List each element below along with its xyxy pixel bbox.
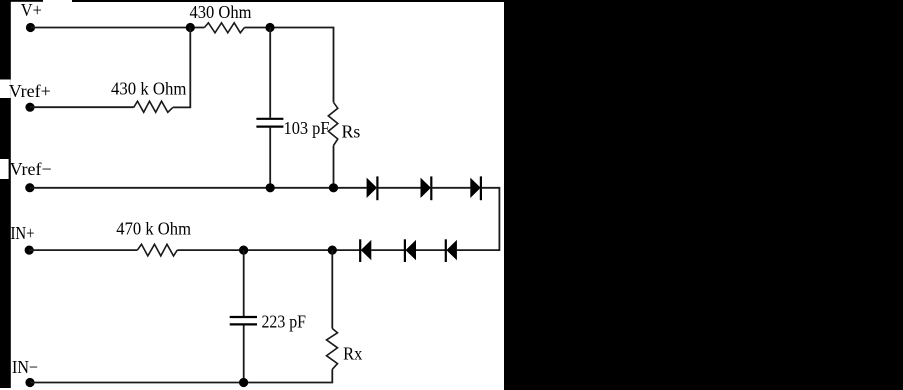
diode D3 triangle xyxy=(470,178,480,198)
resistor Rx zigzag xyxy=(327,329,338,370)
svg-text:Vref−: Vref− xyxy=(10,159,52,179)
terminal dot IN- xyxy=(25,378,34,387)
resistor 470 k Ohm xyxy=(137,244,177,256)
black left margin bar xyxy=(0,0,11,388)
svg-text:430 k Ohm: 430 k Ohm xyxy=(111,78,186,98)
svg-text:430 Ohm: 430 Ohm xyxy=(190,2,252,22)
diode D4 triangle xyxy=(361,240,372,260)
wire vertical cap 223pF bottom lead xyxy=(243,325,245,382)
diode D5 cathode bar xyxy=(404,239,406,262)
diode D6 cathode bar xyxy=(445,239,447,262)
wire between D5 and D6 xyxy=(416,249,446,251)
diode D1 cathode bar xyxy=(376,176,378,200)
wire Vref- rail xyxy=(30,187,367,189)
diode D3 cathode bar xyxy=(480,176,482,200)
svg-text:Rs: Rs xyxy=(342,121,361,141)
wire Rx bottom lead xyxy=(331,369,334,382)
svg-text:Rx: Rx xyxy=(343,344,362,364)
svg-text:V+: V+ xyxy=(21,0,42,20)
wire V+ rail left segment xyxy=(31,27,205,29)
diode D6 triangle xyxy=(446,240,457,260)
wire IN- rail xyxy=(30,382,332,384)
resistor 430 Ohm xyxy=(204,23,244,33)
wire right loop corner xyxy=(457,188,500,250)
wire vertical cap 223pF top lead xyxy=(243,250,245,316)
svg-text:223 pF: 223 pF xyxy=(262,312,307,332)
terminal dot IN+ xyxy=(25,246,34,255)
diode D2 triangle xyxy=(421,178,431,198)
wire Rx top lead xyxy=(331,250,333,328)
junction dot Vref-/cap node xyxy=(266,183,275,192)
junction dot V+/430k node xyxy=(186,23,195,32)
diode D1 triangle xyxy=(367,178,377,198)
junction dot V+/cap node xyxy=(265,23,274,32)
white gap in left bar at Vref- label xyxy=(0,159,9,179)
resistor 430 k Ohm xyxy=(134,101,173,112)
junction dot IN-/cap node xyxy=(239,378,248,387)
svg-text:470 k Ohm: 470 k Ohm xyxy=(116,218,191,238)
capacitor 223 pF bottom plate xyxy=(230,323,257,325)
svg-text:Vref+: Vref+ xyxy=(9,81,51,101)
wire vertical from V+ node down to 430k resistor xyxy=(173,28,191,108)
capacitor 103 pF top plate xyxy=(256,118,283,120)
junction dot IN+/cap node xyxy=(239,246,248,255)
wire vertical cap 103pF bottom lead xyxy=(269,128,271,188)
svg-text:103 pF: 103 pF xyxy=(284,118,330,138)
wire V+ rail right segment with corner down xyxy=(245,28,334,103)
wire IN+ rail left segment xyxy=(29,249,137,251)
svg-text:IN+: IN+ xyxy=(11,223,35,243)
wire between D2 and D3 xyxy=(431,187,470,189)
resistor Rs zigzag xyxy=(328,102,338,145)
wire IN+ rail middle segment xyxy=(177,249,360,251)
capacitor 223 pF top plate xyxy=(230,316,257,318)
wire between D4 and D5 xyxy=(371,249,405,251)
wire Rs bottom lead xyxy=(333,146,335,188)
terminal dot Vref+ xyxy=(25,103,34,112)
diode D4 cathode bar xyxy=(359,239,361,262)
wire Vref+ rail xyxy=(30,106,134,108)
junction dot IN+/Rx node xyxy=(328,246,337,255)
terminal dot Vref- xyxy=(25,183,34,192)
black top border strip xyxy=(10,0,43,2)
black right margin block xyxy=(504,0,903,390)
wire between D1 and D2 xyxy=(377,187,420,189)
capacitor 103 pF bottom plate xyxy=(256,125,283,127)
diode D5 triangle xyxy=(406,240,417,260)
junction dot Vref-/Rs node xyxy=(329,183,338,192)
svg-text:IN−: IN− xyxy=(12,357,38,377)
wire vertical cap 103pF top lead xyxy=(269,28,271,118)
terminal dot V+ xyxy=(26,23,35,32)
white gap in left bar at Vref+ label xyxy=(0,80,11,99)
diode D2 cathode bar xyxy=(430,176,432,200)
